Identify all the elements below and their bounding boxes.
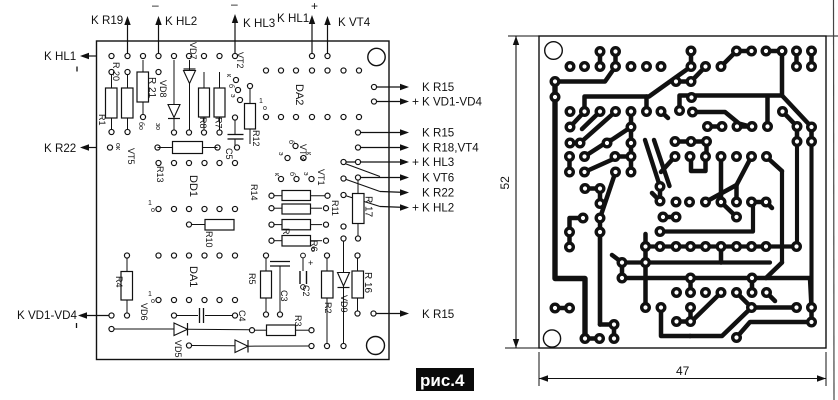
left PCB board outline: [97, 41, 390, 360]
copper trace: [721, 51, 737, 67]
copper trace: [737, 293, 752, 308]
copper trace: [644, 97, 649, 112]
diode bottom: [186, 340, 314, 353]
copper trace: [620, 263, 625, 279]
dimension line 47 horizontal: [539, 352, 826, 386]
pads row: [107, 145, 112, 150]
wire: [380, 207, 407, 208]
svg-text:C4: C4: [237, 310, 247, 322]
copper trace: [567, 232, 572, 247]
svg-text:K R19: K R19: [91, 14, 123, 27]
wire: [82, 55, 97, 57]
copper trace: [691, 67, 706, 82]
copper trace: [663, 215, 676, 220]
copper trace: [677, 319, 691, 324]
copper trace: [613, 52, 618, 67]
diode VD5: [109, 323, 250, 358]
capacitor C3: [270, 262, 290, 318]
svg-text:о: о: [151, 298, 155, 305]
copper trace: [783, 112, 798, 127]
tick mark: [76, 323, 78, 328]
svg-text:R8: R8: [198, 117, 208, 129]
copper trace: [737, 322, 812, 338]
copper trace: [706, 185, 737, 202]
svg-text:R14: R14: [249, 184, 259, 201]
svg-text:K HL3: K HL3: [243, 17, 275, 30]
svg-text:VD5: VD5: [173, 340, 183, 358]
wire diagonal: [344, 195, 381, 207]
transistor VT3: [277, 140, 312, 161]
svg-text:R 17: R 17: [363, 196, 374, 218]
svg-text:э: э: [229, 94, 236, 98]
svg-text:K HL2: K HL2: [165, 15, 197, 28]
copper trace: [652, 193, 661, 202]
resistor R21: [137, 60, 157, 130]
svg-text:DA2: DA2: [293, 84, 305, 105]
resistor R12: [245, 83, 262, 146]
IC DD1: [148, 160, 238, 214]
copper trace: [750, 278, 755, 293]
wire fan: [374, 101, 407, 103]
svg-text:рис.4: рис.4: [420, 371, 465, 390]
mounting hole top-right: [368, 48, 385, 65]
copper trace: [607, 127, 631, 143]
copper trace: [661, 112, 668, 119]
copper trace: [622, 260, 770, 264]
svg-text:VD9: VD9: [339, 295, 349, 313]
svg-text:K R15: K R15: [422, 81, 454, 94]
solder pads: [551, 47, 815, 342]
copper trace: [585, 157, 632, 173]
copper trace: [555, 67, 616, 82]
copper trace: [795, 127, 800, 142]
copper trace: [661, 157, 675, 173]
svg-text:1: 1: [148, 291, 152, 298]
svg-text:52: 52: [498, 176, 512, 190]
caption box fig.4: [416, 368, 474, 391]
resistor R4: [114, 253, 133, 318]
svg-text:C5: C5: [224, 148, 234, 160]
copper trace: [691, 157, 706, 172]
copper trace: [721, 202, 737, 217]
copper trace: [809, 127, 813, 308]
scan page edge line: [833, 0, 836, 400]
svg-text:C2: C2: [301, 285, 311, 297]
wire: [380, 192, 407, 193]
copper trace: [693, 293, 721, 321]
resistor R3: [249, 315, 314, 336]
svg-text:б: б: [227, 84, 235, 88]
copper trace: [600, 172, 616, 218]
capacitor C5: [224, 115, 244, 160]
svg-text:R7: R7: [214, 117, 224, 129]
resistor R5: [247, 253, 272, 317]
copper trace: [737, 49, 752, 54]
transistor VT2: [225, 52, 245, 103]
svg-text:R 16: R 16: [362, 272, 373, 294]
svg-text:+: +: [308, 258, 313, 268]
svg-text:VT5: VT5: [126, 148, 136, 165]
copper trace: [643, 234, 648, 308]
copper trace: [612, 255, 622, 263]
svg-text:+: +: [412, 201, 419, 215]
svg-text:VT1: VT1: [316, 169, 326, 186]
copper trace: [719, 247, 724, 263]
svg-text:VD6: VD6: [139, 303, 149, 321]
copper trace: [580, 112, 616, 144]
copper trace: [600, 325, 614, 339]
svg-text:–: –: [152, 0, 159, 12]
copper trace: [570, 112, 585, 128]
svg-text:зо: зо: [154, 123, 161, 130]
mounting hole right board bottom-left: [543, 330, 560, 347]
wire fan: [358, 177, 407, 179]
svg-text:K R22: K R22: [422, 187, 454, 200]
svg-text:о: о: [263, 105, 267, 112]
copper trace: [766, 263, 782, 279]
pads mid: [341, 236, 346, 241]
svg-text:DA1: DA1: [187, 266, 199, 287]
copper trace: [765, 98, 770, 127]
copper trace: [766, 157, 782, 172]
transistor VT1: [273, 169, 326, 186]
capacitor C2: [300, 253, 313, 296]
svg-text:б: б: [311, 246, 315, 254]
wire to VT4: [327, 19, 329, 56]
wire diagonal: [344, 163, 381, 177]
copper trace: [582, 112, 600, 130]
resistor R20: [111, 62, 133, 135]
pads top row: [109, 53, 114, 58]
svg-text:R 20: R 20: [111, 62, 121, 81]
svg-text:47: 47: [676, 364, 690, 378]
diode VD9: [338, 241, 350, 349]
copper trace: [598, 218, 603, 232]
resistor R14: [249, 184, 330, 201]
copper trace: [629, 112, 634, 144]
dimension line 52 vertical: [498, 36, 838, 348]
capacitor C4 row: [109, 308, 247, 323]
svg-text:R10: R10: [204, 231, 214, 248]
svg-text:R 21: R 21: [146, 77, 157, 99]
copper trace: [689, 51, 694, 67]
copper trace: [810, 278, 812, 308]
copper trace: [795, 142, 799, 247]
resistor R7: [214, 72, 226, 135]
IC DA2: [263, 68, 361, 120]
copper trace: [809, 127, 814, 142]
pad: [371, 311, 376, 316]
resistor R11 row: [269, 200, 340, 216]
copper trace: [688, 308, 693, 322]
svg-text:K R15: K R15: [422, 308, 454, 321]
svg-text:бо: бо: [137, 122, 145, 130]
copper trace: [752, 305, 797, 310]
svg-text:VD7: VD7: [188, 42, 198, 60]
svg-text:+: +: [412, 95, 419, 109]
wire to HL3: [234, 17, 236, 56]
copper trace: [646, 244, 797, 248]
svg-text:K VT6: K VT6: [422, 172, 454, 185]
wire diagonal: [344, 179, 381, 192]
diode VD8: [158, 60, 180, 135]
svg-text:R11: R11: [330, 200, 340, 216]
copper trace: [767, 293, 776, 302]
copper trace: [688, 278, 693, 293]
svg-text:R4: R4: [114, 276, 124, 288]
wire: [80, 315, 112, 317]
svg-text:R1: R1: [97, 114, 107, 126]
copper trace: [680, 51, 783, 111]
diode VD7: [184, 42, 199, 135]
wire fan: [374, 86, 407, 88]
copper trace: [629, 143, 634, 172]
resistor R9: [269, 220, 329, 240]
copper trace: [654, 140, 670, 186]
tick mark: [76, 67, 78, 72]
copper trace: [734, 185, 739, 202]
copper trace: [555, 82, 585, 339]
wire fan bottom: [374, 313, 408, 315]
svg-text:K HL1: K HL1: [44, 50, 76, 63]
svg-text:K HL2: K HL2: [422, 202, 454, 215]
copper trace: [658, 187, 663, 202]
svg-text:K VD1-VD4: K VD1-VD4: [422, 96, 482, 109]
svg-text:DD1: DD1: [187, 175, 199, 197]
copper trace: [708, 124, 723, 129]
svg-text:K VD1-VD4: K VD1-VD4: [17, 309, 77, 322]
svg-text:R12: R12: [251, 130, 261, 147]
resistor R17: [353, 178, 374, 242]
copper trace: [766, 202, 772, 208]
svg-text:C3: C3: [279, 290, 289, 302]
copper trace: [585, 336, 600, 341]
right PCB board outline: [539, 36, 826, 348]
copper trace: [645, 140, 660, 187]
wire: [82, 147, 97, 149]
copper trace: [752, 200, 767, 205]
copper trace: [661, 308, 690, 337]
copper trace: [737, 157, 752, 186]
copper trace: [660, 205, 753, 232]
IC DA1: [148, 253, 238, 305]
mounting hole right board top-left: [545, 42, 563, 60]
resistor R13: [155, 142, 218, 183]
resistor R8: [198, 72, 210, 135]
wire fan: [344, 161, 408, 163]
resistor R16: [352, 253, 373, 316]
svg-text:VD8: VD8: [158, 80, 168, 98]
svg-text:1: 1: [148, 200, 152, 207]
svg-text:б: б: [288, 172, 296, 176]
copper trace: [766, 49, 782, 54]
resistor R10: [186, 220, 234, 248]
svg-text:K R15: K R15: [422, 127, 454, 140]
svg-text:K HL1: K HL1: [277, 12, 309, 25]
copper trace: [555, 306, 570, 311]
svg-text:VT2: VT2: [235, 52, 245, 69]
svg-text:K HL3: K HL3: [422, 156, 454, 169]
copper trace: [780, 171, 784, 263]
pads fan sources: [371, 84, 376, 89]
svg-text:R5: R5: [247, 273, 257, 285]
wire fan: [358, 147, 407, 149]
copper trace: [737, 124, 752, 129]
copper trace: [676, 79, 691, 84]
copper trace: [719, 157, 724, 203]
resistor R6: [269, 236, 329, 252]
svg-text:ок: ок: [114, 143, 121, 151]
svg-text:R3: R3: [293, 315, 303, 327]
copper trace: [585, 189, 600, 204]
copper trace: [693, 112, 751, 127]
wire to HL2: [158, 19, 160, 56]
svg-text:1: 1: [259, 98, 263, 105]
copper trace: [598, 232, 603, 325]
svg-text:R13: R13: [155, 166, 165, 183]
svg-text:э: э: [277, 152, 284, 156]
svg-text:K R18,VT4: K R18,VT4: [422, 142, 479, 155]
svg-text:K R22: K R22: [44, 142, 76, 155]
copper trace: [704, 142, 709, 157]
copper trace: [585, 140, 611, 157]
svg-text:о: о: [151, 207, 155, 214]
resistor R1: [97, 69, 117, 134]
wire fan: [358, 132, 407, 134]
copper trace: [598, 52, 603, 67]
svg-text:K VT4: K VT4: [338, 16, 371, 29]
copper trace: [675, 139, 707, 144]
wire to HL1: [311, 18, 313, 56]
copper trace: [622, 276, 810, 281]
resistor R2: [322, 253, 334, 349]
svg-text:э: э: [302, 172, 309, 176]
mounting hole bottom-right: [367, 337, 385, 355]
copper trace: [570, 218, 584, 232]
copper trace: [782, 96, 812, 128]
svg-text:VT3: VT3: [298, 144, 308, 161]
copper trace: [809, 308, 814, 323]
svg-text:–: –: [231, 0, 238, 11]
pad: [156, 69, 161, 74]
copper trace: [585, 67, 692, 112]
copper trace: [809, 51, 814, 67]
copper trace: [567, 157, 572, 173]
svg-text:+: +: [412, 155, 419, 169]
svg-text:+: +: [311, 0, 318, 13]
copper trace: [690, 308, 752, 337]
wire to R19: [127, 19, 129, 56]
copper trace: [794, 51, 799, 67]
svg-text:R2: R2: [323, 302, 333, 314]
